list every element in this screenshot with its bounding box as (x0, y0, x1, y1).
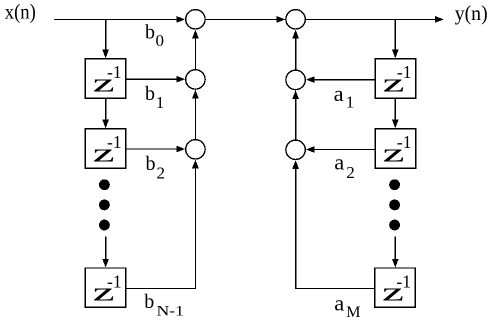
wire: branch down to left delay Z1 (102, 19, 109, 58)
wire: Z4 down to Z5 (392, 98, 399, 128)
svg-text:y(n): y(n) (455, 1, 488, 25)
wire: arrow into Z3 (102, 237, 109, 268)
svg-text:-1: -1 (396, 271, 411, 291)
coefficient label bN-1 (144, 291, 184, 320)
svg-text:b: b (145, 83, 155, 105)
svg-text:-1: -1 (397, 62, 412, 82)
ellipsis dots left (99, 179, 110, 230)
svg-text:-1: -1 (107, 62, 122, 82)
wire: Z4 output to adder S5 (306, 76, 375, 83)
summing node S6 (286, 140, 305, 159)
svg-text:a: a (334, 291, 344, 316)
input label x(n) (5, 0, 36, 24)
svg-text:b: b (146, 153, 156, 175)
coefficient label a2 (334, 149, 355, 182)
wire: adder S2 up to adder S1 (192, 30, 199, 69)
summing node S2 (186, 70, 205, 89)
output label y(n) (455, 1, 488, 25)
svg-text:a: a (334, 149, 344, 174)
wire: adder S6 up to adder S5 (292, 90, 299, 139)
wire: arrow into Z6 (392, 237, 399, 268)
delay block Z5 (z^-1 right middle) (375, 129, 415, 168)
svg-text:x(n): x(n) (5, 0, 36, 24)
svg-text:2: 2 (346, 163, 355, 182)
wire: branch down to right delay Z4 (392, 19, 399, 58)
wire: Z1 down to Z2 (102, 98, 109, 128)
svg-text:0: 0 (156, 31, 165, 50)
svg-text:a: a (334, 81, 344, 106)
delay block Z1 (z^-1 left top) (85, 59, 125, 98)
wire: Z2 output to adder S3 (126, 146, 185, 153)
coefficient label b1 (145, 83, 164, 112)
summing node S1 (186, 10, 205, 29)
svg-text:b: b (145, 22, 155, 44)
delay block Z6 (z^-1 right bottom) (375, 268, 415, 307)
wire: output line to y(n) (306, 16, 444, 23)
wire: Z5 output to adder S6 (306, 146, 375, 153)
wire: Z1 output to adder S2 (126, 76, 185, 83)
svg-text:-1: -1 (397, 132, 412, 152)
coefficient label b2 (146, 153, 166, 182)
ellipsis dots right (389, 179, 400, 230)
svg-text:1: 1 (346, 93, 355, 112)
svg-text:-1: -1 (107, 132, 122, 152)
summing node S5 (286, 70, 305, 89)
svg-text:b: b (144, 291, 154, 313)
svg-text:N-1: N-1 (157, 304, 185, 320)
coefficient label b0 (145, 22, 164, 51)
delay block Z4 (z^-1 right top) (375, 59, 415, 98)
svg-text:-1: -1 (107, 271, 122, 291)
wire: Z3 output up to adder S3 (126, 160, 199, 289)
coefficient label aM (334, 291, 360, 322)
wire: adder S1 to adder S4 (205, 16, 285, 23)
delay block Z2 (z^-1 left middle) (85, 129, 125, 168)
coefficient label a1 (334, 81, 355, 112)
summing node S3 (186, 140, 205, 159)
svg-text:1: 1 (156, 93, 165, 112)
svg-text:2: 2 (157, 163, 166, 182)
wire: input line into adder S1 (54, 16, 185, 23)
wire: Z6 output up to adder S6 (292, 160, 375, 288)
wire: S4 feedback from adder S5 (292, 30, 299, 70)
summing node S4 (286, 10, 305, 29)
svg-text:M: M (346, 304, 360, 321)
delay block Z3 (z^-1 left bottom) (85, 268, 125, 307)
wire: adder S3 up to adder S2 (192, 90, 199, 139)
